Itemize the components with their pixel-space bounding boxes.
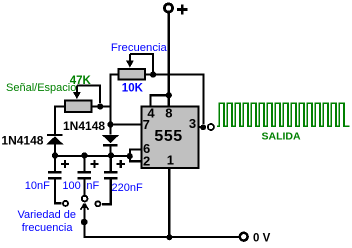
diode D1 1N4148 cathode up (46, 134, 63, 145)
IC U1 555 body (141, 106, 198, 168)
potentiometer RV2 47K body (65, 101, 91, 112)
node switch pole junction (81, 219, 88, 226)
svg-text:220nF: 220nF (112, 182, 143, 194)
waveform square wave output (217, 103, 350, 126)
svg-text:100: 100 (62, 180, 80, 192)
node 47K wiper junction (97, 103, 103, 109)
wire 47K right lead to node A (92, 105, 111, 107)
svg-text:nF: nF (86, 180, 99, 192)
node 10K wiper junction (150, 72, 156, 78)
potentiometer RV1 10K wiper arrow (126, 54, 134, 68)
svg-text:10nF: 10nF (25, 180, 50, 192)
terminal + (positive supply) (164, 4, 187, 15)
wire capacitor top rail (55, 155, 130, 157)
terminal switch contact middle (82, 196, 88, 202)
wire 47K left lead down (55, 107, 65, 135)
label Variedad de frecuencia (18, 209, 77, 234)
diode D2 1N4148 cathode down (102, 135, 119, 146)
capacitor C2 100nF (78, 156, 91, 195)
svg-text:555: 555 (154, 128, 182, 145)
node pin1 ground junction (166, 234, 172, 240)
capacitor C1 10nF (48, 156, 61, 203)
label C1 polarity + (61, 160, 69, 168)
svg-text:Señal/Espacio: Señal/Espacio (6, 82, 76, 94)
svg-text:8: 8 (165, 105, 172, 120)
switch SW1 selector arrow (81, 203, 89, 237)
wire pin 1 down (168, 168, 170, 237)
node pin 3 output junction (200, 124, 206, 130)
svg-text:10K: 10K (122, 82, 144, 94)
svg-text:7: 7 (143, 117, 150, 132)
capacitor C3 220nF (102, 156, 117, 204)
svg-text:0 V: 0 V (253, 232, 271, 244)
terminal switch contact left (63, 201, 68, 206)
wire 10K left lead (111, 75, 118, 135)
node pin7 junction (107, 121, 113, 127)
svg-text:1: 1 (167, 153, 174, 168)
terminal switch contact right (95, 201, 100, 206)
svg-text:1N4148: 1N4148 (63, 119, 105, 133)
potentiometer RV2 47K wiper arrow (73, 86, 81, 100)
label C2 polarity + (90, 160, 98, 168)
svg-text:1N4148: 1N4148 (1, 133, 43, 147)
svg-text:3: 3 (189, 116, 196, 131)
wire D2 cathode to rail (110, 146, 112, 156)
wire D1 anode to rail (54, 144, 56, 156)
svg-text:SALIDA: SALIDA (262, 131, 302, 143)
wire ground rail bottom (83, 236, 239, 238)
svg-text:Variedad de: Variedad de (18, 209, 77, 221)
svg-text:2: 2 (143, 154, 150, 169)
wire bracket pins 6-2 (130, 150, 140, 162)
wire pin 7 to diode node (111, 123, 141, 125)
wire 10K wiper bracket (130, 54, 153, 72)
wire pin 3 stub (199, 126, 202, 128)
svg-text:frecuencia: frecuencia (22, 222, 74, 234)
wire 47K wiper bracket (77, 86, 100, 103)
svg-text:Frecuencia: Frecuencia (111, 42, 168, 54)
node pins 6-2 junction (127, 153, 133, 159)
node rail C2 (81, 152, 87, 158)
node rail C3 (108, 152, 114, 158)
node rail C1 (52, 152, 58, 158)
terminal 0V (240, 233, 248, 241)
terminal output open circle (208, 124, 214, 130)
label C3 polarity + (117, 160, 125, 168)
potentiometer RV1 10K body (119, 69, 145, 80)
wire bracket pin4 to pin8 (151, 95, 169, 106)
wire + supply vertical to pin 8 (168, 12, 170, 106)
wire 10K right lead to pin 3 node (146, 75, 204, 124)
node junction pins 4-8 supply (166, 92, 172, 98)
